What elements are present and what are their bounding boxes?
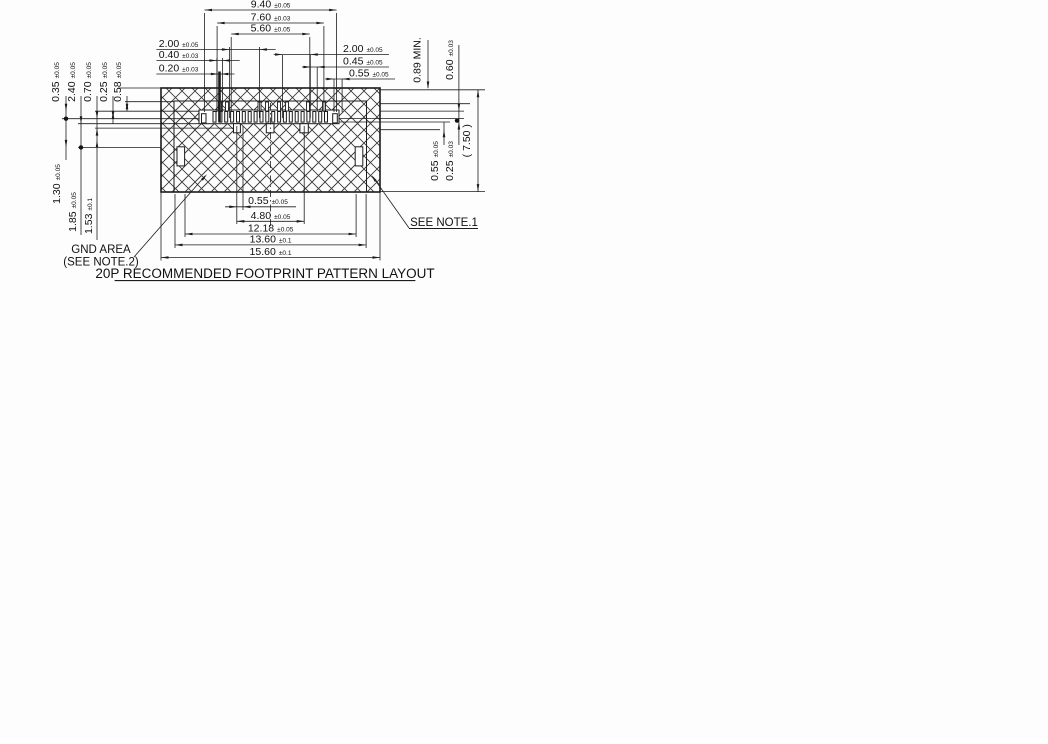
dim 2.00 left (20P fp)	[156, 38, 275, 51]
ext lines right stack (20P fp)	[283, 55, 343, 118]
ext lines bottom (20P fp)	[161, 126, 380, 261]
dim (7.50) (20P fp)	[461, 90, 479, 192]
ext lines top dims (20P fp)	[205, 13, 337, 112]
dim 0.25 vert right (20P fp)	[444, 121, 460, 181]
datum dot left2 (20P fp)	[79, 145, 83, 149]
SEE NOTE.1 label (20P fp)	[372, 175, 479, 229]
datum dot right (20P fp)	[455, 118, 459, 122]
dim 0.70 vert (20P fp)	[82, 62, 98, 136]
dim 0.55 right (20P fp)	[325, 68, 395, 81]
dim 0.55 bottom (20P fp)	[225, 195, 296, 208]
20P footprint: 20 signal pads row	[213, 112, 328, 123]
left extension lines (20P fp)	[62, 88, 233, 147]
dim 0.35 vert (20P fp)	[50, 62, 67, 119]
20P footprint: outer ground plane (cross-hatched)	[161, 88, 380, 192]
svg-text:( 7.50 ): ( 7.50 )	[461, 124, 473, 157]
svg-text:SEE NOTE.1: SEE NOTE.1	[410, 217, 478, 229]
dim 0.45 right (20P fp)	[302, 56, 389, 69]
20P footprint: right GND pad	[333, 114, 338, 123]
dim 12.18 (20P fp)	[185, 223, 356, 236]
dim 0.20 left (20P fp)	[156, 63, 234, 76]
20P footprint: pad window (white)	[199, 110, 339, 124]
dim 5.60 (20P fp)	[231, 23, 310, 36]
20P footprint: inner signal area (diagonal hatch)	[174, 101, 367, 192]
datum dot left (20P fp)	[64, 117, 68, 121]
dim 4.80 (20P fp)	[237, 210, 304, 223]
20P footprint: vertical centerline	[270, 103, 272, 226]
svg-text:GND AREA: GND AREA	[71, 244, 131, 256]
title 20P footprint	[95, 266, 434, 281]
dim 0.40 left (20P fp)	[156, 49, 239, 62]
dim 2.00 right (20P fp)	[274, 43, 389, 56]
dim 15.60 (20P fp)	[161, 246, 380, 259]
20P footprint: slots in top band	[219, 102, 326, 111]
dim 1.53 vert (20P fp)	[83, 128, 98, 240]
GND pad heavy edge line (20P fp)	[218, 72, 221, 123]
20P footprint: right edge cutout	[355, 147, 363, 166]
right extension lines (20P fp)	[339, 90, 485, 192]
dim 1.85 vert (20P fp)	[67, 147, 81, 235]
20P footprint: left edge cutout	[177, 147, 185, 166]
20P footprint: left GND pad	[202, 114, 207, 123]
dim 2.40 vert (20P fp)	[66, 62, 82, 148]
dim 0.55 vert right (20P fp)	[429, 122, 445, 181]
svg-text:20P RECOMMENDED FOOTPRINT PATT: 20P RECOMMENDED FOOTPRINT PATTERN LAYOUT	[95, 266, 434, 281]
dim 13.60 (20P fp)	[175, 233, 366, 246]
dim 0.60 (20P fp)	[444, 40, 460, 121]
svg-text:9.40±0.05: 9.40±0.05	[251, 0, 291, 11]
GND AREA label (20P fp)	[63, 174, 207, 268]
ext lines left stack (20P fp)	[217, 47, 260, 118]
20P footprint: 3 alignment notches below pads	[234, 124, 309, 133]
svg-text:0.89 MIN.: 0.89 MIN.	[411, 37, 423, 83]
dim 1.30 vert (20P fp)	[51, 119, 67, 204]
dim 0.25 vert (20P fp)	[98, 62, 114, 124]
dim 9.40 (20P fp)	[205, 0, 337, 11]
dim 0.89 MIN (20P fp)	[411, 37, 429, 89]
dim 7.60 (20P fp)	[217, 12, 324, 25]
dim 0.58 vert (20P fp)	[112, 62, 128, 111]
